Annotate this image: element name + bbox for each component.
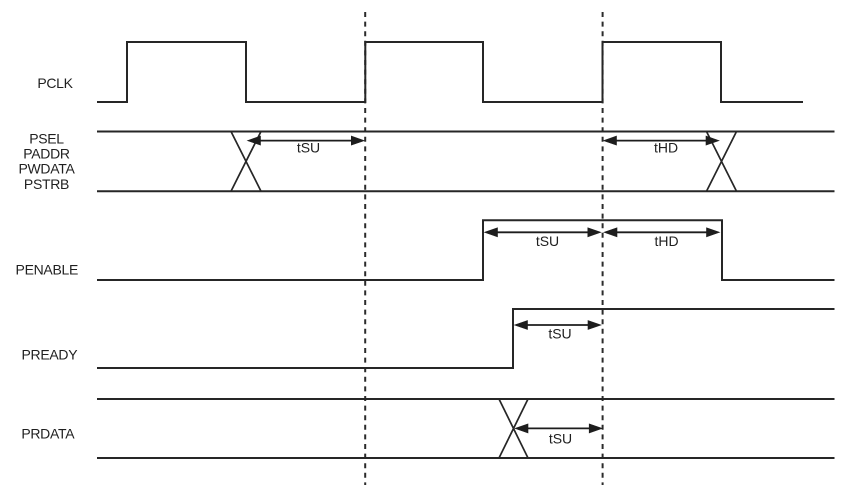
svg-text:tSU: tSU (536, 233, 559, 249)
svg-text:PCLK: PCLK (37, 75, 73, 91)
wire PREADY waveform (97, 309, 835, 368)
svg-text:PADDR: PADDR (23, 145, 70, 161)
signal label PSEL PADDR PWDATA PSTRB (18, 130, 75, 192)
dimension arrow tSU (PRDATA row) (515, 424, 602, 433)
wire PCLK clock waveform (97, 42, 803, 102)
dimension arrow tSU (PSEL row) (248, 136, 365, 145)
wire PRDATA bus top rail (97, 398, 835, 400)
svg-text:PSEL: PSEL (29, 130, 64, 146)
wire PSEL bus bottom rail (97, 190, 835, 192)
dimension arrow tSU (PREADY row) (515, 321, 602, 330)
dimension arrow tHD (PENABLE row) (604, 228, 720, 237)
svg-text:tSU: tSU (549, 430, 572, 446)
node PSEL bus transition X at third PCLK falling edge (707, 132, 737, 192)
svg-text:PSTRB: PSTRB (24, 176, 69, 192)
wire PRDATA bus bottom rail (97, 457, 835, 459)
svg-text:tSU: tSU (548, 326, 571, 342)
svg-text:tSU: tSU (297, 140, 320, 156)
svg-text:PREADY: PREADY (22, 347, 79, 363)
svg-text:tHD: tHD (654, 140, 678, 156)
dimension arrow tSU (PENABLE row) (485, 228, 601, 237)
wire PENABLE waveform (97, 220, 835, 280)
svg-text:PWDATA: PWDATA (18, 161, 75, 177)
svg-text:PRDATA: PRDATA (21, 425, 75, 441)
clock edge marker T2 (dashed vertical line) (602, 12, 604, 485)
dimension arrow tHD (PSEL row) (604, 136, 720, 145)
svg-text:tHD: tHD (654, 233, 678, 249)
node PSEL bus transition X at first PCLK falling edge (231, 132, 261, 192)
node PRDATA bus transition X (499, 399, 528, 458)
wire PSEL bus top rail (97, 131, 835, 133)
svg-text:PENABLE: PENABLE (16, 262, 79, 278)
clock edge marker T1 (dashed vertical line) (364, 12, 366, 485)
